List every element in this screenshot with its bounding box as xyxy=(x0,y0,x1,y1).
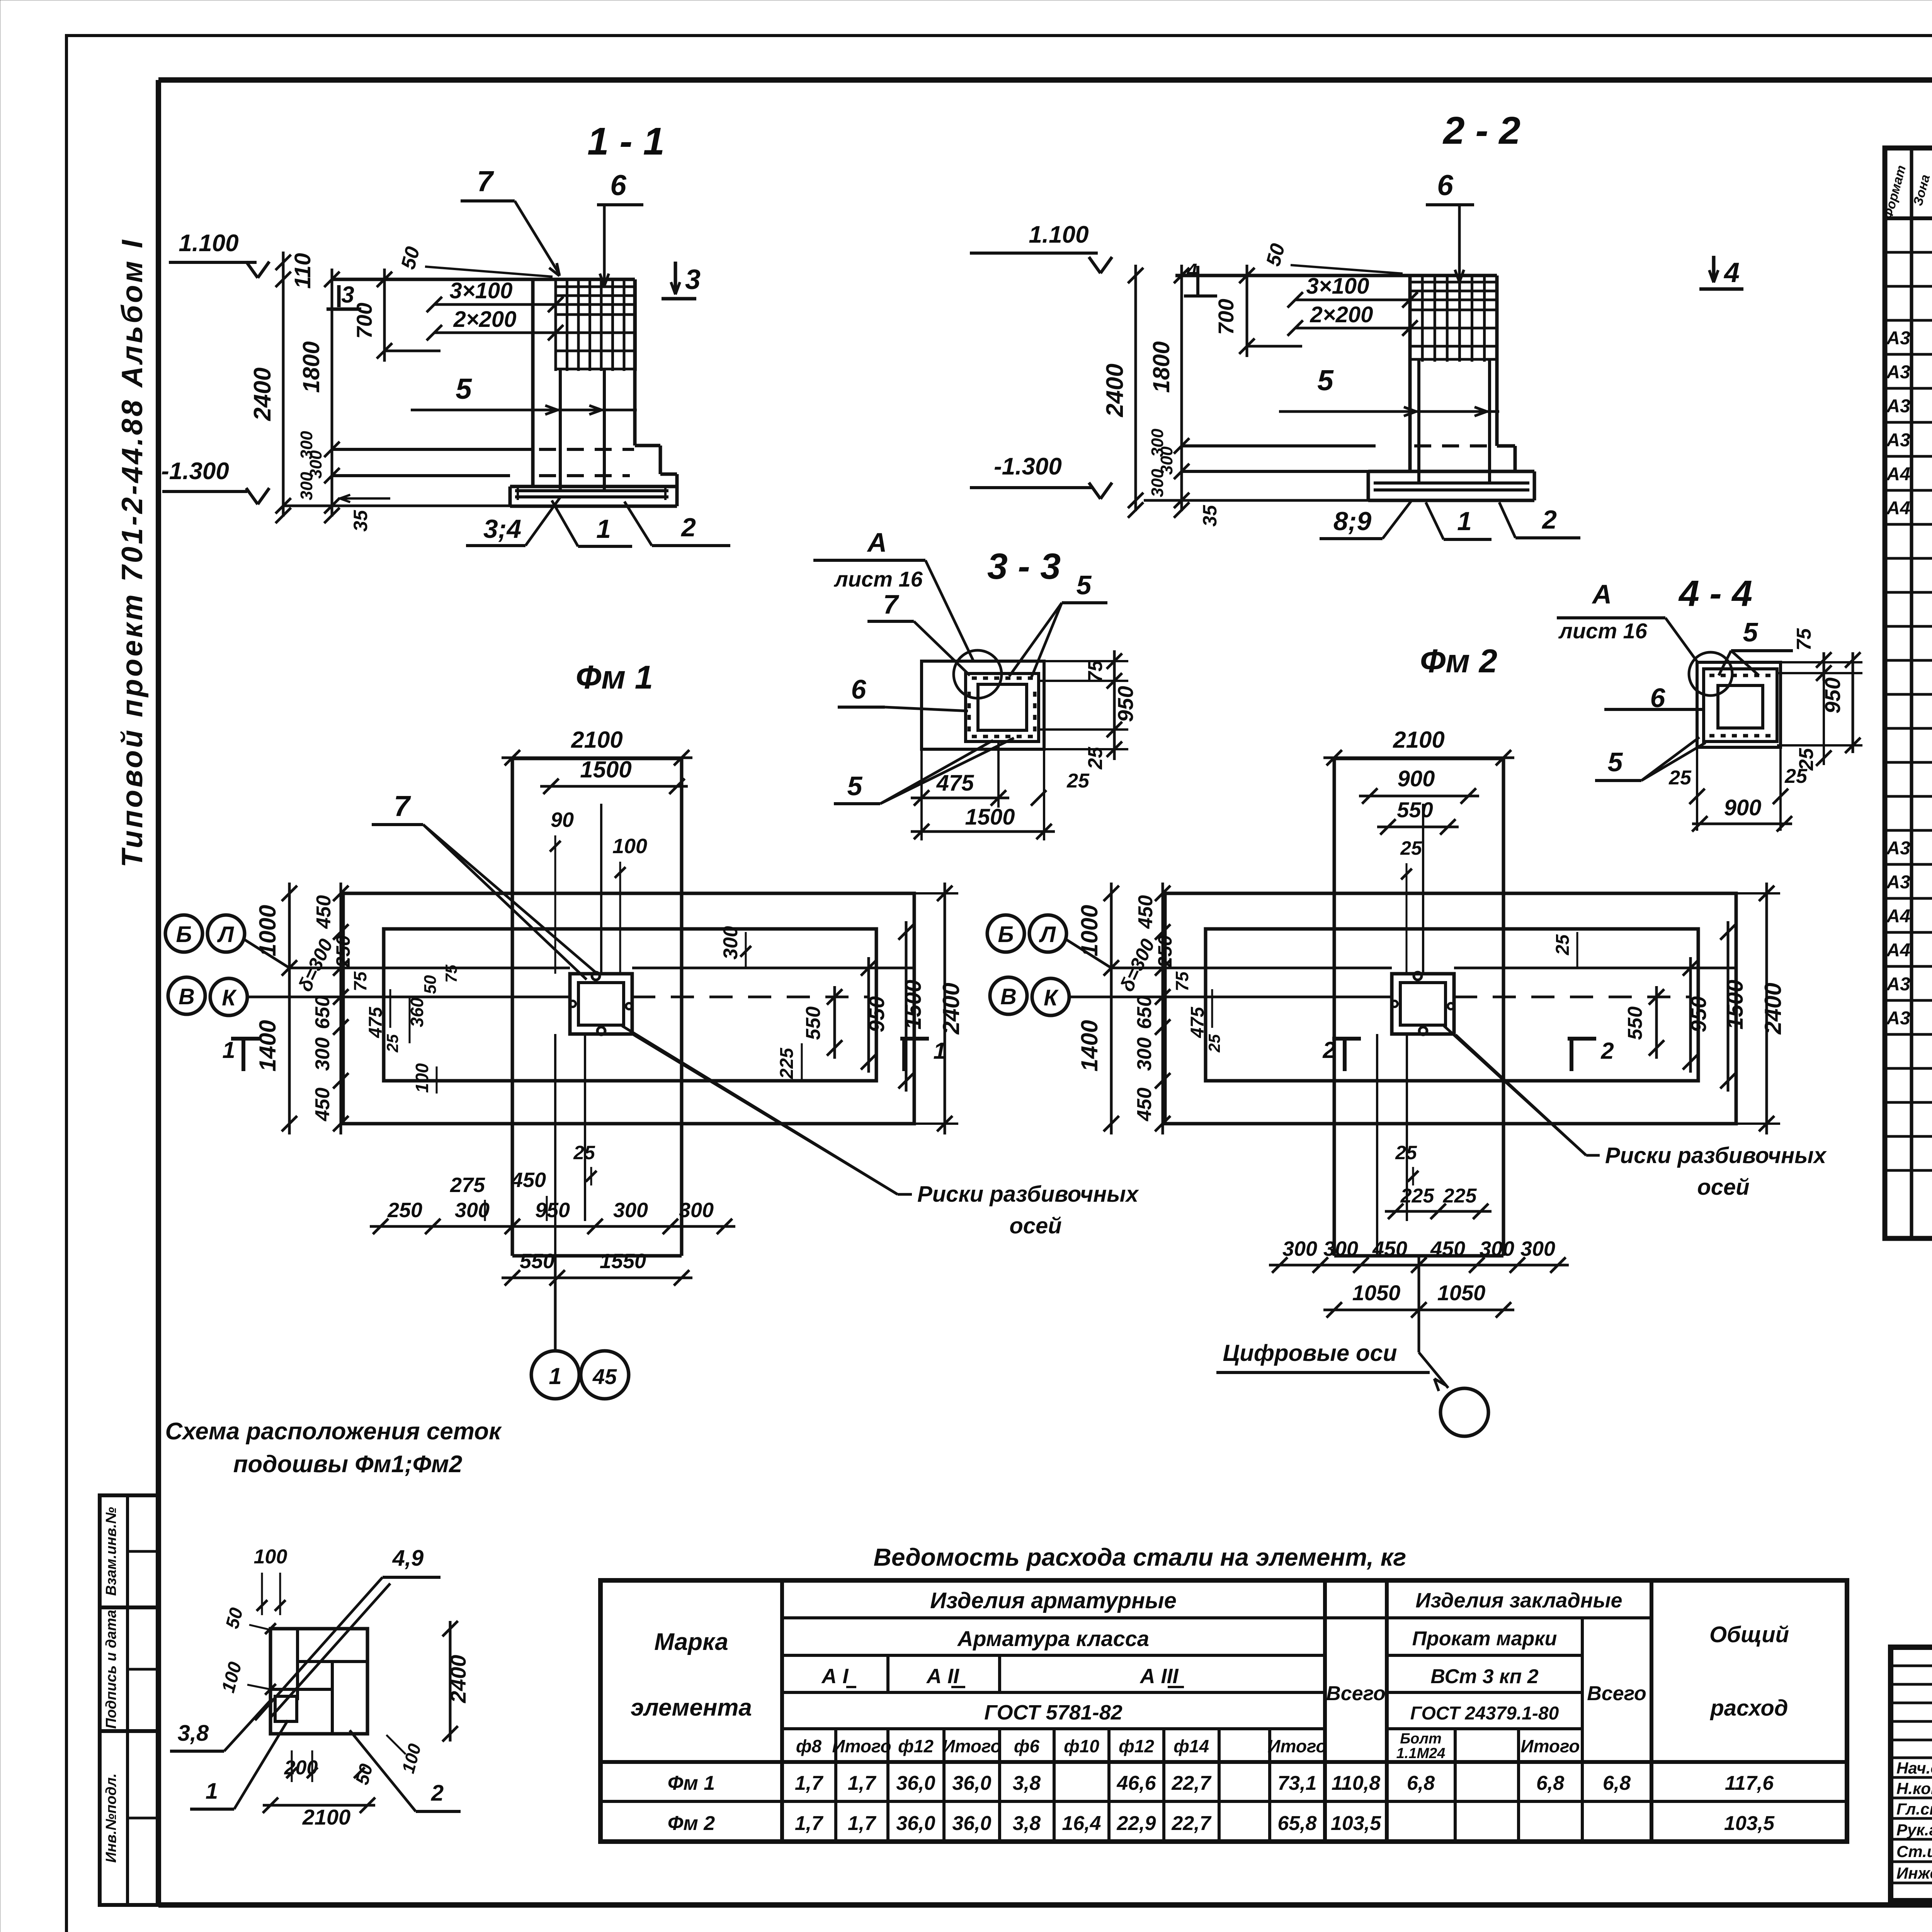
plan FM2 pedestal square xyxy=(1392,974,1454,1034)
svg-text:Инженер: Инженер xyxy=(1896,1864,1932,1882)
svg-text:1500: 1500 xyxy=(580,757,631,782)
svg-text:450: 450 xyxy=(511,1168,546,1192)
svg-text:Фм 2: Фм 2 xyxy=(668,1812,715,1835)
FM2 dim 550 xyxy=(1377,826,1459,828)
svg-text:450: 450 xyxy=(1133,1088,1156,1122)
dim 1500 of 3-3 xyxy=(1043,749,1045,840)
plan FM2 step rectangle xyxy=(1206,929,1698,1081)
spec table outer box xyxy=(1885,148,1932,1238)
svg-text:1: 1 xyxy=(1457,507,1472,536)
svg-text:5: 5 xyxy=(1317,364,1334,396)
section 3-3 stud dots xyxy=(972,677,977,680)
svg-text:Арматура класса: Арматура класса xyxy=(957,1626,1149,1651)
svg-text:36,0: 36,0 xyxy=(952,1812,991,1835)
svg-text:22,7: 22,7 xyxy=(1171,1772,1211,1794)
svg-text:1 - 1: 1 - 1 xyxy=(587,120,665,163)
svg-text:осей: осей xyxy=(1009,1213,1061,1238)
svg-text:-1.300: -1.300 xyxy=(994,453,1062,480)
detail circle A of 4-4 xyxy=(1689,652,1732,696)
column shaft outlines 2-2 xyxy=(1408,276,1412,471)
svg-text:1,7: 1,7 xyxy=(848,1772,876,1794)
FM1 bottom axis line xyxy=(554,1256,557,1350)
plan FM1 pedestal square xyxy=(570,974,632,1034)
plan FM1 vertical slab outline xyxy=(512,757,682,760)
column vertical bars 2-2 xyxy=(1417,359,1420,483)
axis circle B FM2 xyxy=(987,915,1024,952)
FM2 dim 2100 top xyxy=(1333,758,1335,885)
svg-text:Изделия закладные: Изделия закладные xyxy=(1415,1589,1622,1612)
svg-text:550: 550 xyxy=(1397,798,1433,822)
footing step line upper xyxy=(332,448,533,451)
svg-text:А4: А4 xyxy=(1886,498,1910,519)
svg-text:2100: 2100 xyxy=(1393,727,1444,753)
svg-text:Л: Л xyxy=(217,922,234,947)
axis circle V FM2 xyxy=(990,977,1027,1014)
svg-text:250: 250 xyxy=(387,1199,422,1222)
svg-text:3,8: 3,8 xyxy=(1013,1812,1041,1835)
svg-text:1500: 1500 xyxy=(1723,980,1748,1029)
FM1 bottom chain 250-300-950-300-300 xyxy=(370,1225,735,1228)
FM2 axis circle empty xyxy=(1440,1388,1488,1436)
svg-text:45: 45 xyxy=(592,1364,617,1389)
reinforcing mesh of column 2-2 xyxy=(1410,281,1497,284)
svg-text:ф12: ф12 xyxy=(898,1736,934,1756)
svg-text:5: 5 xyxy=(456,372,472,405)
section 4-4 anchor plate xyxy=(1704,669,1777,742)
plan FM2 axis line V xyxy=(1111,996,1392,998)
svg-text:3 - 3: 3 - 3 xyxy=(987,546,1061,587)
svg-text:300: 300 xyxy=(1133,1037,1156,1071)
svg-text:4: 4 xyxy=(1187,260,1197,281)
svg-text:1: 1 xyxy=(596,514,611,544)
svg-text:100: 100 xyxy=(254,1546,287,1568)
svg-text:36,0: 36,0 xyxy=(952,1772,991,1794)
FM2 bottom axis leader xyxy=(1418,1256,1420,1352)
dim chain right of 4-4 xyxy=(1781,661,1862,663)
svg-text:110,8: 110,8 xyxy=(1332,1772,1380,1794)
svg-text:90: 90 xyxy=(551,808,574,832)
svg-text:1800: 1800 xyxy=(298,341,324,393)
svg-text:1.1М24: 1.1М24 xyxy=(1396,1745,1446,1762)
spec table column lines xyxy=(1910,148,1913,1238)
spec table header row line xyxy=(1885,216,1932,220)
section 3-3 outer square xyxy=(922,661,1044,749)
svg-text:450: 450 xyxy=(1372,1237,1407,1260)
svg-text:1050: 1050 xyxy=(1352,1281,1401,1305)
svg-text:950: 950 xyxy=(1113,686,1138,722)
svg-text:А III: А III xyxy=(1139,1665,1179,1688)
svg-text:2400: 2400 xyxy=(446,1655,470,1704)
FM2 dim 900 xyxy=(1359,795,1479,798)
svg-text:2400: 2400 xyxy=(938,983,964,1034)
svg-text:3;4: 3;4 xyxy=(483,514,521,544)
svg-text:1000: 1000 xyxy=(1077,905,1102,956)
section mark 4 right xyxy=(1712,256,1716,281)
svg-text:300: 300 xyxy=(613,1199,648,1222)
svg-text:Подпись и дата: Подпись и дата xyxy=(103,1610,119,1729)
svg-text:Гл.спец.: Гл.спец. xyxy=(1896,1800,1932,1818)
svg-text:ф10: ф10 xyxy=(1064,1736,1099,1756)
FM2 riski leader xyxy=(1444,1026,1586,1155)
FM2 dim 225 225 xyxy=(1385,1210,1492,1213)
footing right step xyxy=(635,444,660,447)
svg-text:В: В xyxy=(1000,984,1017,1009)
svg-text:Л: Л xyxy=(1039,922,1056,947)
FM1 section mark T1 right xyxy=(900,1037,929,1041)
plan FM1 bolt axis lines xyxy=(554,1034,556,1256)
svg-text:Цифровые оси: Цифровые оси xyxy=(1223,1340,1397,1366)
footing step lines 2-2 xyxy=(1182,444,1376,447)
dim 2x200 xyxy=(434,332,556,334)
svg-text:3,8: 3,8 xyxy=(178,1721,209,1746)
svg-text:25: 25 xyxy=(1668,767,1692,789)
svg-text:6: 6 xyxy=(610,169,627,201)
svg-text:Рук.гр.: Рук.гр. xyxy=(1896,1821,1932,1839)
svg-text:1,7: 1,7 xyxy=(848,1812,876,1835)
svg-text:1400: 1400 xyxy=(255,1020,281,1071)
svg-text:46,6: 46,6 xyxy=(1116,1772,1156,1794)
svg-text:5: 5 xyxy=(847,771,863,801)
svg-text:А3: А3 xyxy=(1886,430,1910,451)
dim 3x100 of 2-2 xyxy=(1295,299,1410,301)
axis circle L FM1 xyxy=(207,915,245,952)
axis circle K FM1 xyxy=(210,978,247,1015)
svg-text:Всего: Всего xyxy=(1587,1682,1646,1705)
svg-text:25: 25 xyxy=(1205,1034,1223,1053)
base slab reinforcement 2-2 xyxy=(1374,481,1529,485)
svg-text:110: 110 xyxy=(290,253,315,289)
svg-text:6,8: 6,8 xyxy=(1407,1772,1435,1794)
svg-text:2: 2 xyxy=(1541,505,1557,534)
svg-text:Фм 1: Фм 1 xyxy=(668,1772,715,1794)
svg-text:Итого: Итого xyxy=(832,1736,891,1756)
svg-text:Изделия арматурные: Изделия арматурные xyxy=(930,1588,1177,1613)
svg-text:2 - 2: 2 - 2 xyxy=(1442,109,1520,152)
svg-text:300: 300 xyxy=(297,472,316,500)
svg-text:25: 25 xyxy=(1066,770,1090,792)
section 3-3 anchor plate xyxy=(966,673,1039,742)
svg-text:225: 225 xyxy=(1443,1185,1477,1207)
svg-text:6: 6 xyxy=(851,674,867,704)
ground line of 2-2 xyxy=(1144,499,1368,502)
svg-text:Марка: Марка xyxy=(654,1629,728,1655)
FM1 dim 1500 top xyxy=(540,785,688,788)
svg-text:осей: осей xyxy=(1697,1175,1749,1200)
svg-text:Общий: Общий xyxy=(1709,1622,1789,1647)
svg-text:25: 25 xyxy=(1084,747,1107,770)
FM2 bottom chain 1050-1050 xyxy=(1323,1309,1514,1311)
svg-text:Итого: Итого xyxy=(1268,1736,1327,1756)
svg-text:450: 450 xyxy=(313,895,335,929)
svg-text:475: 475 xyxy=(366,1007,386,1038)
svg-text:1: 1 xyxy=(206,1779,218,1804)
spec table row lines xyxy=(1885,251,1932,254)
svg-text:Всего: Всего xyxy=(1326,1682,1386,1705)
dim chain right of 3-3 xyxy=(1044,660,1128,662)
svg-text:Итого: Итого xyxy=(942,1736,1002,1756)
title block left grid xyxy=(1891,1665,1932,1667)
svg-text:650: 650 xyxy=(311,996,334,1029)
svg-text:103,5: 103,5 xyxy=(1331,1812,1381,1835)
svg-text:А3: А3 xyxy=(1886,872,1910,893)
plan FM1 anchor bolts xyxy=(592,972,600,980)
sheet inner frame xyxy=(158,77,1932,83)
schema dim 2100 bottom xyxy=(263,1804,375,1807)
svg-text:36,0: 36,0 xyxy=(896,1772,935,1794)
svg-text:225: 225 xyxy=(777,1048,797,1079)
plan FM2 vertical slab outline xyxy=(1334,757,1503,760)
svg-text:100: 100 xyxy=(412,1063,432,1093)
svg-text:лист 16: лист 16 xyxy=(833,567,923,591)
svg-text:3×100: 3×100 xyxy=(450,278,513,303)
svg-text:Б: Б xyxy=(176,922,192,947)
svg-text:5: 5 xyxy=(1608,747,1623,777)
svg-text:75: 75 xyxy=(1793,628,1815,651)
dim chain 2400 left xyxy=(282,252,285,517)
FM1 bottom chain 550-1550 xyxy=(502,1277,692,1279)
plan FM1 axis line V xyxy=(289,996,570,998)
svg-text:2×200: 2×200 xyxy=(453,307,517,332)
footing base slab 2-2 xyxy=(1368,470,1534,473)
svg-text:25: 25 xyxy=(1400,837,1422,859)
svg-text:950: 950 xyxy=(1686,996,1711,1032)
axis circle B FM1 xyxy=(165,915,202,952)
svg-text:А: А xyxy=(1592,579,1612,609)
svg-text:Типовой проект 701-2-44.88: Типовой проект 701-2-44.88 Альбом I xyxy=(116,238,149,867)
svg-text:2: 2 xyxy=(431,1781,444,1806)
svg-text:Риски разбивочных: Риски разбивочных xyxy=(1605,1143,1827,1168)
FM2 section mark T2 right xyxy=(1568,1037,1596,1041)
svg-text:подошвы Фм1;Фм2: подошвы Фм1;Фм2 xyxy=(233,1451,463,1478)
svg-text:ГОСТ 5781-82: ГОСТ 5781-82 xyxy=(984,1701,1122,1724)
svg-text:275: 275 xyxy=(450,1173,485,1197)
svg-text:475: 475 xyxy=(1187,1007,1208,1038)
svg-text:1800: 1800 xyxy=(1148,341,1174,393)
svg-text:103,5: 103,5 xyxy=(1724,1812,1775,1835)
steel table vertical lines xyxy=(780,1580,784,1842)
svg-text:100: 100 xyxy=(612,835,647,858)
svg-text:2100: 2100 xyxy=(302,1805,351,1829)
base slab reinforcement xyxy=(515,489,668,492)
svg-text:К: К xyxy=(1044,985,1059,1010)
FM1 dim 2100 top xyxy=(511,758,514,885)
svg-text:Риски разбивочных: Риски разбивочных xyxy=(917,1182,1139,1207)
svg-text:А3: А3 xyxy=(1886,1008,1910,1029)
svg-text:Ст.инж.: Ст.инж. xyxy=(1896,1842,1932,1861)
svg-text:25: 25 xyxy=(1553,934,1573,956)
svg-text:250: 250 xyxy=(332,935,354,968)
steel table horizontal lines xyxy=(782,1616,1651,1619)
svg-text:450: 450 xyxy=(311,1088,334,1122)
steel table outer box xyxy=(600,1580,1847,1842)
svg-text:35: 35 xyxy=(1199,505,1221,527)
dim chain 2400 of 2-2 xyxy=(1134,265,1137,511)
svg-text:250: 250 xyxy=(1154,935,1176,968)
dim chain 1800-300-300-300 of 2-2 xyxy=(1180,265,1183,511)
svg-text:элемента: элемента xyxy=(631,1694,752,1721)
axis circle L FM2 xyxy=(1029,915,1066,952)
svg-text:Б: Б xyxy=(998,922,1014,947)
FM2 right dim chains xyxy=(1736,892,1780,895)
svg-text:3: 3 xyxy=(685,264,701,295)
axis circle K FM2 xyxy=(1032,978,1069,1015)
svg-text:А4: А4 xyxy=(1886,906,1910,927)
svg-text:300: 300 xyxy=(719,926,742,960)
svg-text:225: 225 xyxy=(1400,1185,1435,1207)
reinforcing mesh of column 1-1 xyxy=(556,286,636,288)
ground line at -1.300 xyxy=(282,505,510,507)
svg-text:ВСт 3 кп 2: ВСт 3 кп 2 xyxy=(1430,1665,1538,1688)
svg-text:А I: А I xyxy=(821,1665,849,1688)
svg-text:1: 1 xyxy=(549,1363,561,1389)
svg-text:300: 300 xyxy=(1282,1237,1317,1260)
svg-text:75: 75 xyxy=(1172,971,1192,992)
section 2-2 column top line xyxy=(1175,274,1497,277)
svg-text:4,9: 4,9 xyxy=(392,1546,424,1571)
svg-text:300: 300 xyxy=(1520,1237,1555,1260)
svg-text:25: 25 xyxy=(1395,1142,1417,1163)
dim 700 chain of 2-2 xyxy=(1246,265,1248,357)
FM1 right dim chains xyxy=(914,892,958,895)
svg-text:300: 300 xyxy=(455,1199,490,1222)
svg-text:900: 900 xyxy=(1724,795,1762,820)
svg-text:1500: 1500 xyxy=(965,804,1015,830)
svg-text:73,1: 73,1 xyxy=(1277,1772,1316,1794)
svg-text:-1.300: -1.300 xyxy=(161,458,229,485)
FM1 riski leader xyxy=(622,1026,898,1194)
svg-text:2: 2 xyxy=(1600,1038,1614,1064)
section 1-1 column top line xyxy=(332,278,635,281)
svg-text:1,7: 1,7 xyxy=(795,1772,823,1794)
svg-text:1,7: 1,7 xyxy=(795,1812,823,1835)
plan FM2 horizontal slab outline xyxy=(1165,893,1736,1124)
schema dim 2400 right xyxy=(449,1621,452,1742)
svg-text:650: 650 xyxy=(1133,996,1156,1029)
detail circle A xyxy=(954,650,1002,698)
svg-text:5: 5 xyxy=(1077,570,1092,600)
FM1 axis circle 1 xyxy=(531,1351,579,1399)
svg-text:8;9: 8;9 xyxy=(1333,507,1371,536)
svg-text:Схема расположения сеток: Схема расположения сеток xyxy=(165,1418,502,1445)
svg-text:450: 450 xyxy=(1430,1237,1465,1260)
svg-text:117,6: 117,6 xyxy=(1725,1772,1774,1794)
svg-text:2100: 2100 xyxy=(571,727,622,753)
svg-text:35: 35 xyxy=(350,510,371,532)
svg-text:16,4: 16,4 xyxy=(1062,1812,1101,1835)
svg-text:2400: 2400 xyxy=(249,367,276,421)
svg-text:К: К xyxy=(222,985,237,1010)
FM2 left dim chain 1000-1400 xyxy=(1110,883,1113,1134)
svg-text:2400: 2400 xyxy=(1102,364,1128,417)
svg-text:Н.контр.: Н.контр. xyxy=(1896,1779,1932,1798)
dim 2x200 of 2-2 xyxy=(1295,327,1410,330)
svg-text:ГОСТ 24379.1-80: ГОСТ 24379.1-80 xyxy=(1410,1703,1559,1724)
plan FM1 horizontal slab outline xyxy=(343,893,914,1124)
footing base slab xyxy=(510,485,677,488)
svg-text:ф8: ф8 xyxy=(796,1736,822,1756)
svg-text:36,0: 36,0 xyxy=(896,1812,935,1835)
svg-text:Фм 1: Фм 1 xyxy=(576,659,653,696)
svg-text:1: 1 xyxy=(933,1038,946,1064)
svg-text:6,8: 6,8 xyxy=(1536,1772,1564,1794)
svg-text:А II: А II xyxy=(926,1665,959,1688)
svg-text:950: 950 xyxy=(535,1199,570,1222)
svg-text:5: 5 xyxy=(1743,617,1759,647)
dim chain 1800-300-300-300 left xyxy=(331,269,333,517)
svg-text:1500: 1500 xyxy=(901,980,926,1029)
dim 3x100 xyxy=(434,303,556,306)
svg-text:А4: А4 xyxy=(1886,940,1910,961)
svg-text:ф12: ф12 xyxy=(1119,1736,1154,1756)
footing right step 2-2 xyxy=(1497,444,1515,448)
section 4-4 stud dots xyxy=(1709,674,1714,677)
svg-text:700: 700 xyxy=(352,303,376,338)
svg-text:300: 300 xyxy=(1480,1237,1514,1260)
FM1 left dim chain 1000-1400 xyxy=(288,883,291,1134)
svg-text:300: 300 xyxy=(1323,1237,1358,1260)
svg-text:550: 550 xyxy=(1624,1007,1646,1040)
svg-text:7: 7 xyxy=(477,165,494,197)
svg-text:1400: 1400 xyxy=(1077,1020,1102,1071)
svg-text:7: 7 xyxy=(394,790,411,822)
svg-text:А3: А3 xyxy=(1886,974,1910,995)
svg-text:475: 475 xyxy=(936,770,975,796)
plan FM1 step rectangle xyxy=(384,929,876,1081)
svg-text:ф14: ф14 xyxy=(1173,1736,1209,1756)
svg-text:25: 25 xyxy=(573,1142,595,1163)
svg-text:1: 1 xyxy=(222,1037,235,1063)
svg-text:900: 900 xyxy=(1398,766,1435,791)
svg-text:1.100: 1.100 xyxy=(179,230,238,257)
plan FM2 anchor bolts xyxy=(1414,972,1422,980)
plan FM2 axis line B xyxy=(1111,967,1392,969)
FM1 left dim chain 450-650-300-450 xyxy=(340,883,342,1134)
dim 900 of 4-4 xyxy=(1696,747,1698,831)
svg-text:4: 4 xyxy=(1723,257,1740,288)
svg-text:1050: 1050 xyxy=(1437,1281,1486,1305)
svg-text:2: 2 xyxy=(1322,1037,1335,1063)
svg-text:А3: А3 xyxy=(1886,838,1910,859)
svg-text:Фм 2: Фм 2 xyxy=(1420,643,1497,680)
svg-text:расход: расход xyxy=(1709,1696,1788,1721)
svg-text:700: 700 xyxy=(1214,299,1238,335)
column shaft outlines xyxy=(531,279,535,486)
svg-text:22,9: 22,9 xyxy=(1116,1812,1156,1835)
svg-text:300: 300 xyxy=(311,1037,334,1071)
svg-text:А4: А4 xyxy=(1886,464,1910,485)
svg-text:450: 450 xyxy=(1134,895,1157,929)
svg-text:7: 7 xyxy=(883,589,900,619)
plan FM1 axis line B xyxy=(289,967,570,969)
svg-text:950: 950 xyxy=(864,996,889,1032)
svg-text:Взам.инв.№: Взам.инв.№ xyxy=(103,1507,119,1596)
svg-text:Нач.отд: Нач.отд xyxy=(1896,1759,1932,1777)
left attribute strip boxes xyxy=(100,1495,158,1905)
svg-text:25: 25 xyxy=(383,1034,401,1053)
plan FM2 bolt axis lines xyxy=(1376,1034,1378,1256)
axis leader lines FM1 xyxy=(243,939,289,968)
svg-text:6: 6 xyxy=(1437,169,1454,201)
svg-text:3×100: 3×100 xyxy=(1306,274,1369,299)
svg-text:1.100: 1.100 xyxy=(1029,221,1088,248)
svg-text:2400: 2400 xyxy=(1760,983,1786,1034)
schema inner mesh lines xyxy=(296,1629,299,1700)
svg-text:25: 25 xyxy=(1784,765,1808,787)
svg-text:Инв.№подл.: Инв.№подл. xyxy=(103,1773,119,1862)
svg-text:550: 550 xyxy=(802,1007,825,1040)
FM2 bottom chain 300-300-450-450-300-300 xyxy=(1269,1264,1569,1267)
svg-text:лист 16: лист 16 xyxy=(1558,619,1648,643)
